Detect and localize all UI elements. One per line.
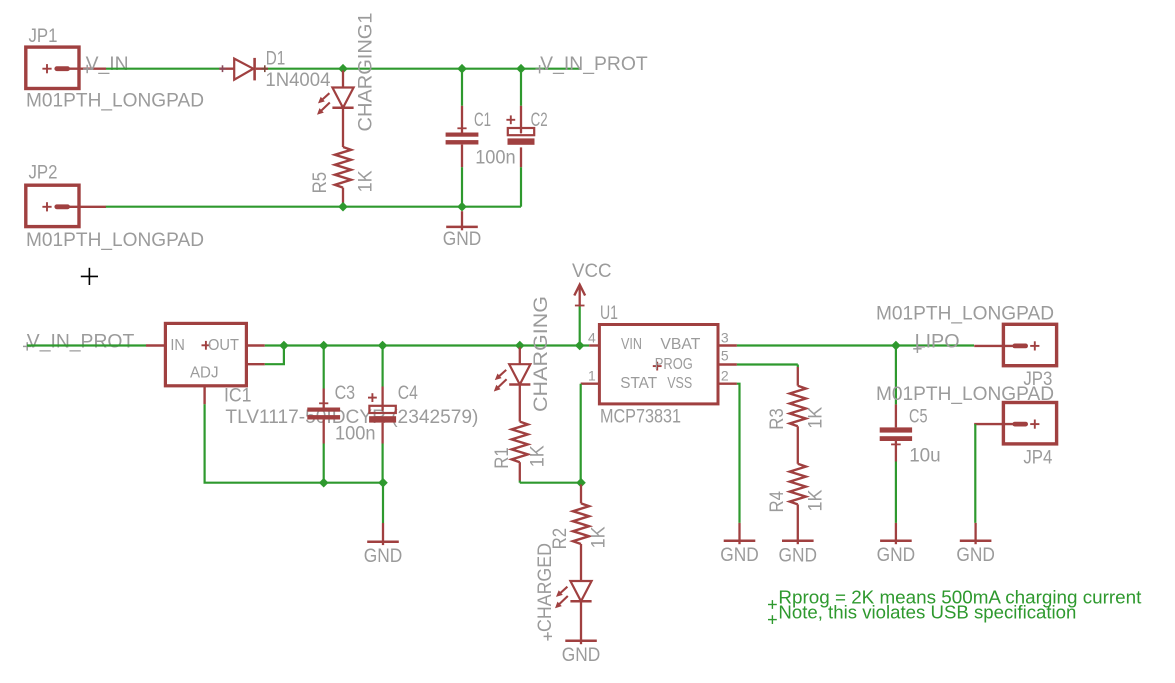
resistor R4 bottom lead: [797, 504, 799, 544]
resistor R1: [512, 422, 528, 463]
svg-text:PROG: PROG: [655, 356, 693, 373]
svg-text:VIN: VIN: [621, 336, 642, 353]
svg-text:4: 4: [588, 330, 596, 346]
resistor R5 bottom lead: [342, 188, 344, 207]
ground GND (below C5): [877, 523, 916, 566]
label C1: [474, 110, 491, 131]
resistor R5 top lead: [342, 108, 344, 147]
svg-text:V_IN: V_IN: [86, 54, 129, 75]
U1 pin number 4: [588, 330, 596, 346]
note text line 2: [768, 602, 1076, 625]
capacitor C5 lower lead: [895, 441, 897, 523]
ground GND (below R4): [779, 541, 818, 567]
ground GND (below C4): [364, 483, 403, 567]
svg-text:GND: GND: [720, 545, 759, 566]
label R2 (rotated): [550, 528, 571, 550]
label 1K of R4 (rotated): [805, 489, 826, 511]
svg-text:C1: C1: [474, 110, 491, 131]
wire R1 to STAT node: [520, 481, 581, 483]
svg-text:GND: GND: [364, 546, 403, 567]
capacitor C2 (polarized): [506, 115, 534, 144]
junction STAT/R2 node: [576, 478, 586, 488]
svg-text:U1: U1: [600, 303, 618, 324]
supply symbol VCC: [572, 261, 612, 307]
LED CHARGING1: [317, 88, 354, 115]
junction at D1/LED node: [338, 64, 348, 74]
svg-text:100n: 100n: [335, 423, 376, 444]
svg-text:JP4: JP4: [1023, 448, 1052, 469]
label C2: [531, 110, 548, 131]
capacitor C4 (polarized): [368, 393, 396, 422]
vertical net label CHARGING1: [356, 12, 377, 131]
junction R5 bottom: [338, 202, 348, 212]
U1 pin number 3: [721, 330, 729, 346]
wire ADJ loop to OUT node: [265, 346, 284, 365]
resistor R3: [790, 386, 806, 427]
svg-text:D1: D1: [266, 49, 286, 70]
svg-text:GND: GND: [562, 645, 601, 666]
label M01PTH_LONGPAD (JP2 footprint): [26, 230, 204, 251]
U1 pin name VSS: [667, 375, 692, 392]
label 10u of C5: [909, 446, 941, 467]
wire ADJ down and right to GND bus: [205, 404, 383, 482]
svg-text:1K: 1K: [356, 170, 377, 192]
U1 pin number 2: [721, 368, 729, 384]
svg-text:C5: C5: [909, 407, 928, 428]
capacitor C2 lower lead: [520, 147, 522, 206]
diode D1: [234, 58, 254, 81]
ground GND (below CHARGED): [562, 641, 601, 666]
junction C3 bottom: [319, 478, 329, 488]
svg-text:M01PTH_LONGPAD: M01PTH_LONGPAD: [876, 304, 1054, 325]
svg-text:C3: C3: [335, 383, 356, 404]
label C5: [909, 407, 928, 428]
IC1 ADJ right pin lead: [246, 363, 264, 365]
svg-text:1K: 1K: [527, 445, 548, 467]
capacitor C4 upper lead: [382, 346, 384, 411]
label IC1: [224, 386, 252, 407]
svg-text:1K: 1K: [805, 489, 826, 511]
svg-text:VCC: VCC: [572, 261, 612, 282]
svg-text:C2: C2: [531, 110, 548, 131]
svg-text:1: 1: [588, 368, 596, 384]
diode D1 cathode lead: [256, 65, 268, 72]
svg-text:IN: IN: [170, 337, 185, 354]
resistor R2 bottom lead: [580, 544, 582, 581]
LED CHARGING: [494, 364, 531, 391]
label R5 (rotated): [310, 172, 331, 194]
svg-text:V_IN_PROT: V_IN_PROT: [540, 54, 648, 75]
capacitor C2 upper lead: [520, 69, 522, 133]
connector JP3: [974, 324, 1056, 390]
U1 pin name VIN: [621, 336, 642, 353]
wire V_IN_PROT (D1 to label end): [268, 68, 581, 70]
ground GND (top section): [443, 211, 482, 250]
connector JP1: [26, 26, 106, 89]
junction C3 top: [319, 341, 329, 351]
label R4 (rotated): [767, 491, 788, 513]
resistor R5: [335, 147, 351, 188]
junction VCC / U1 VIN: [575, 341, 585, 351]
junction C4 top: [378, 341, 388, 351]
U1 VBAT pin lead: [718, 344, 737, 346]
U1 STAT pin lead: [581, 383, 600, 385]
svg-text:Note, this violates USB specif: Note, this violates USB specification: [778, 602, 1076, 623]
svg-text:R1: R1: [492, 447, 513, 469]
diode D1 anode lead: [219, 65, 234, 72]
svg-text:GND: GND: [956, 545, 995, 566]
wire JP2 to C2 bottom: [106, 206, 521, 208]
svg-text:IC1: IC1: [224, 386, 252, 407]
net label V_IN: [83, 54, 129, 75]
label C3: [335, 383, 356, 404]
wire OUT to U1 VIN: [265, 344, 600, 346]
svg-text:M01PTH_LONGPAD: M01PTH_LONGPAD: [26, 90, 204, 111]
junction C4 bottom / GND branch: [378, 478, 388, 488]
LED CHARGED bottom lead: [580, 601, 582, 644]
note text line 1: [768, 586, 1142, 609]
label R1 (rotated): [492, 447, 513, 469]
junction CHARGING LED top: [515, 341, 525, 351]
U1 pin name PROG: [655, 356, 693, 373]
net label V_IN_PROT (at IC1 input): [23, 331, 135, 352]
svg-text:VSS: VSS: [667, 375, 692, 392]
junction IC1 OUT node: [279, 341, 289, 351]
IC1 origin cross: [202, 341, 211, 350]
wire V_IN_PROT to IC1: [27, 344, 165, 346]
svg-text:VBAT: VBAT: [660, 336, 701, 353]
IC1 pin name IN: [170, 337, 185, 354]
IC1 OUT pin lead: [246, 344, 264, 346]
vertical net label CHARGED: [535, 543, 556, 641]
LED CHARGING lead: [519, 347, 521, 364]
svg-text:C4: C4: [398, 383, 418, 404]
svg-text:CHARGING1: CHARGING1: [356, 12, 377, 131]
resistor R1 top lead: [519, 385, 521, 422]
label M01PTH_LONGPAD (JP3 footprint): [876, 304, 1054, 325]
label 1K of R1 (rotated): [527, 445, 548, 467]
capacitor C1 lower lead: [461, 145, 463, 207]
svg-text:JP2: JP2: [29, 163, 58, 184]
label 1K of R2 (rotated): [589, 526, 610, 548]
wire VBAT to JP3 (LIPO net): [737, 344, 974, 346]
capacitor C1: [446, 128, 479, 144]
U1 pin name VBAT: [660, 336, 701, 353]
capacitor C3 lower lead: [323, 420, 325, 483]
U1 PROG pin lead: [718, 363, 737, 365]
label 100n of C3: [335, 423, 376, 444]
wire VCC to main net: [579, 307, 581, 346]
label 100n of C1: [475, 147, 516, 168]
LED CHARGED: [555, 581, 592, 608]
U1 VSS pin lead: [718, 383, 737, 385]
svg-text:100n: 100n: [475, 147, 516, 168]
capacitor C4 lower lead: [381, 423, 383, 483]
junction at C1 top: [457, 64, 467, 74]
svg-text:R5: R5: [310, 172, 331, 194]
svg-text:GND: GND: [877, 545, 916, 566]
svg-text:3: 3: [721, 330, 729, 346]
svg-text:M01PTH_LONGPAD: M01PTH_LONGPAD: [26, 230, 204, 251]
svg-text:MCP73831: MCP73831: [600, 407, 681, 428]
label M01PTH_LONGPAD (JP1 footprint): [26, 90, 204, 111]
U1 pin number 1: [588, 368, 596, 384]
sheet origin cross: [81, 268, 98, 285]
IC1 pin name OUT: [208, 337, 240, 354]
svg-text:10u: 10u: [909, 446, 941, 467]
U1 pin number 5: [721, 347, 729, 363]
label 1N4004: [265, 70, 330, 91]
svg-text:R4: R4: [767, 491, 788, 513]
voltage regulator IC1 box: [165, 323, 246, 385]
label MCP73831: [600, 407, 681, 428]
label D1: [266, 49, 286, 70]
resistor R3 top lead: [797, 367, 799, 386]
wire JP4 down to GND: [974, 424, 976, 523]
vertical net label CHARGING: [531, 296, 552, 412]
label C4: [398, 383, 418, 404]
resistor R4: [790, 464, 806, 505]
svg-text:1K: 1K: [805, 407, 826, 429]
ground GND (below JP4): [956, 523, 995, 566]
resistor R1 bottom lead: [519, 462, 521, 480]
capacitor C3 upper lead: [323, 346, 325, 408]
wire R3 to R4: [797, 426, 799, 464]
connector JP4: [974, 403, 1056, 469]
wire V_IN (JP1 to D1): [106, 68, 220, 70]
label R3 (rotated): [767, 408, 788, 430]
junction C1 bottom / GND: [457, 202, 467, 212]
label 1K of R5 (rotated): [356, 170, 377, 192]
wire STAT down to R1/R2 node: [580, 384, 582, 483]
wire PROG to R3: [737, 365, 798, 368]
charger IC U1 box: [599, 325, 718, 404]
label U1: [600, 303, 618, 324]
resistor R2 top lead: [580, 485, 582, 504]
svg-text:R3: R3: [767, 408, 788, 430]
junction at C2 top: [516, 64, 526, 74]
U1 pin name STAT: [620, 375, 658, 392]
svg-text:GND: GND: [443, 229, 482, 250]
svg-text:ADJ: ADJ: [190, 365, 219, 382]
net label V_IN_PROT (top): [535, 54, 648, 75]
svg-text:5: 5: [721, 347, 729, 363]
label TLV1117-50IDCYR (2342579): [225, 407, 478, 428]
IC1 bottom ADJ pin lead: [203, 386, 205, 405]
capacitor C5: [880, 427, 912, 444]
svg-text:GND: GND: [779, 545, 818, 566]
svg-text:OUT: OUT: [208, 337, 240, 354]
label 1K of R3 (rotated): [805, 407, 826, 429]
U1 origin cross: [653, 362, 662, 371]
junction C5 top: [891, 341, 901, 351]
svg-text:STAT: STAT: [620, 375, 658, 392]
wire VSS down to GND: [737, 384, 740, 523]
svg-text:JP1: JP1: [29, 26, 58, 47]
connector JP2: [26, 163, 106, 227]
ground GND (below U1 VSS): [720, 523, 759, 566]
capacitor C3: [307, 403, 340, 419]
IC1 pin name ADJ: [190, 365, 219, 382]
svg-text:2: 2: [721, 368, 729, 384]
net label LIPO: [913, 331, 959, 353]
svg-text:V_IN_PROT: V_IN_PROT: [27, 331, 135, 352]
svg-text:CHARGED: CHARGED: [535, 543, 556, 632]
label M01PTH_LONGPAD (JP4 footprint): [876, 384, 1054, 405]
capacitor C5 upper lead: [895, 346, 897, 428]
LED CHARGING1 lead: [342, 71, 344, 88]
svg-text:1N4004: 1N4004: [265, 70, 330, 91]
svg-text:CHARGING: CHARGING: [531, 296, 552, 412]
resistor R2: [573, 503, 589, 544]
svg-text:1K: 1K: [589, 526, 610, 548]
capacitor C1 upper lead: [461, 69, 463, 133]
